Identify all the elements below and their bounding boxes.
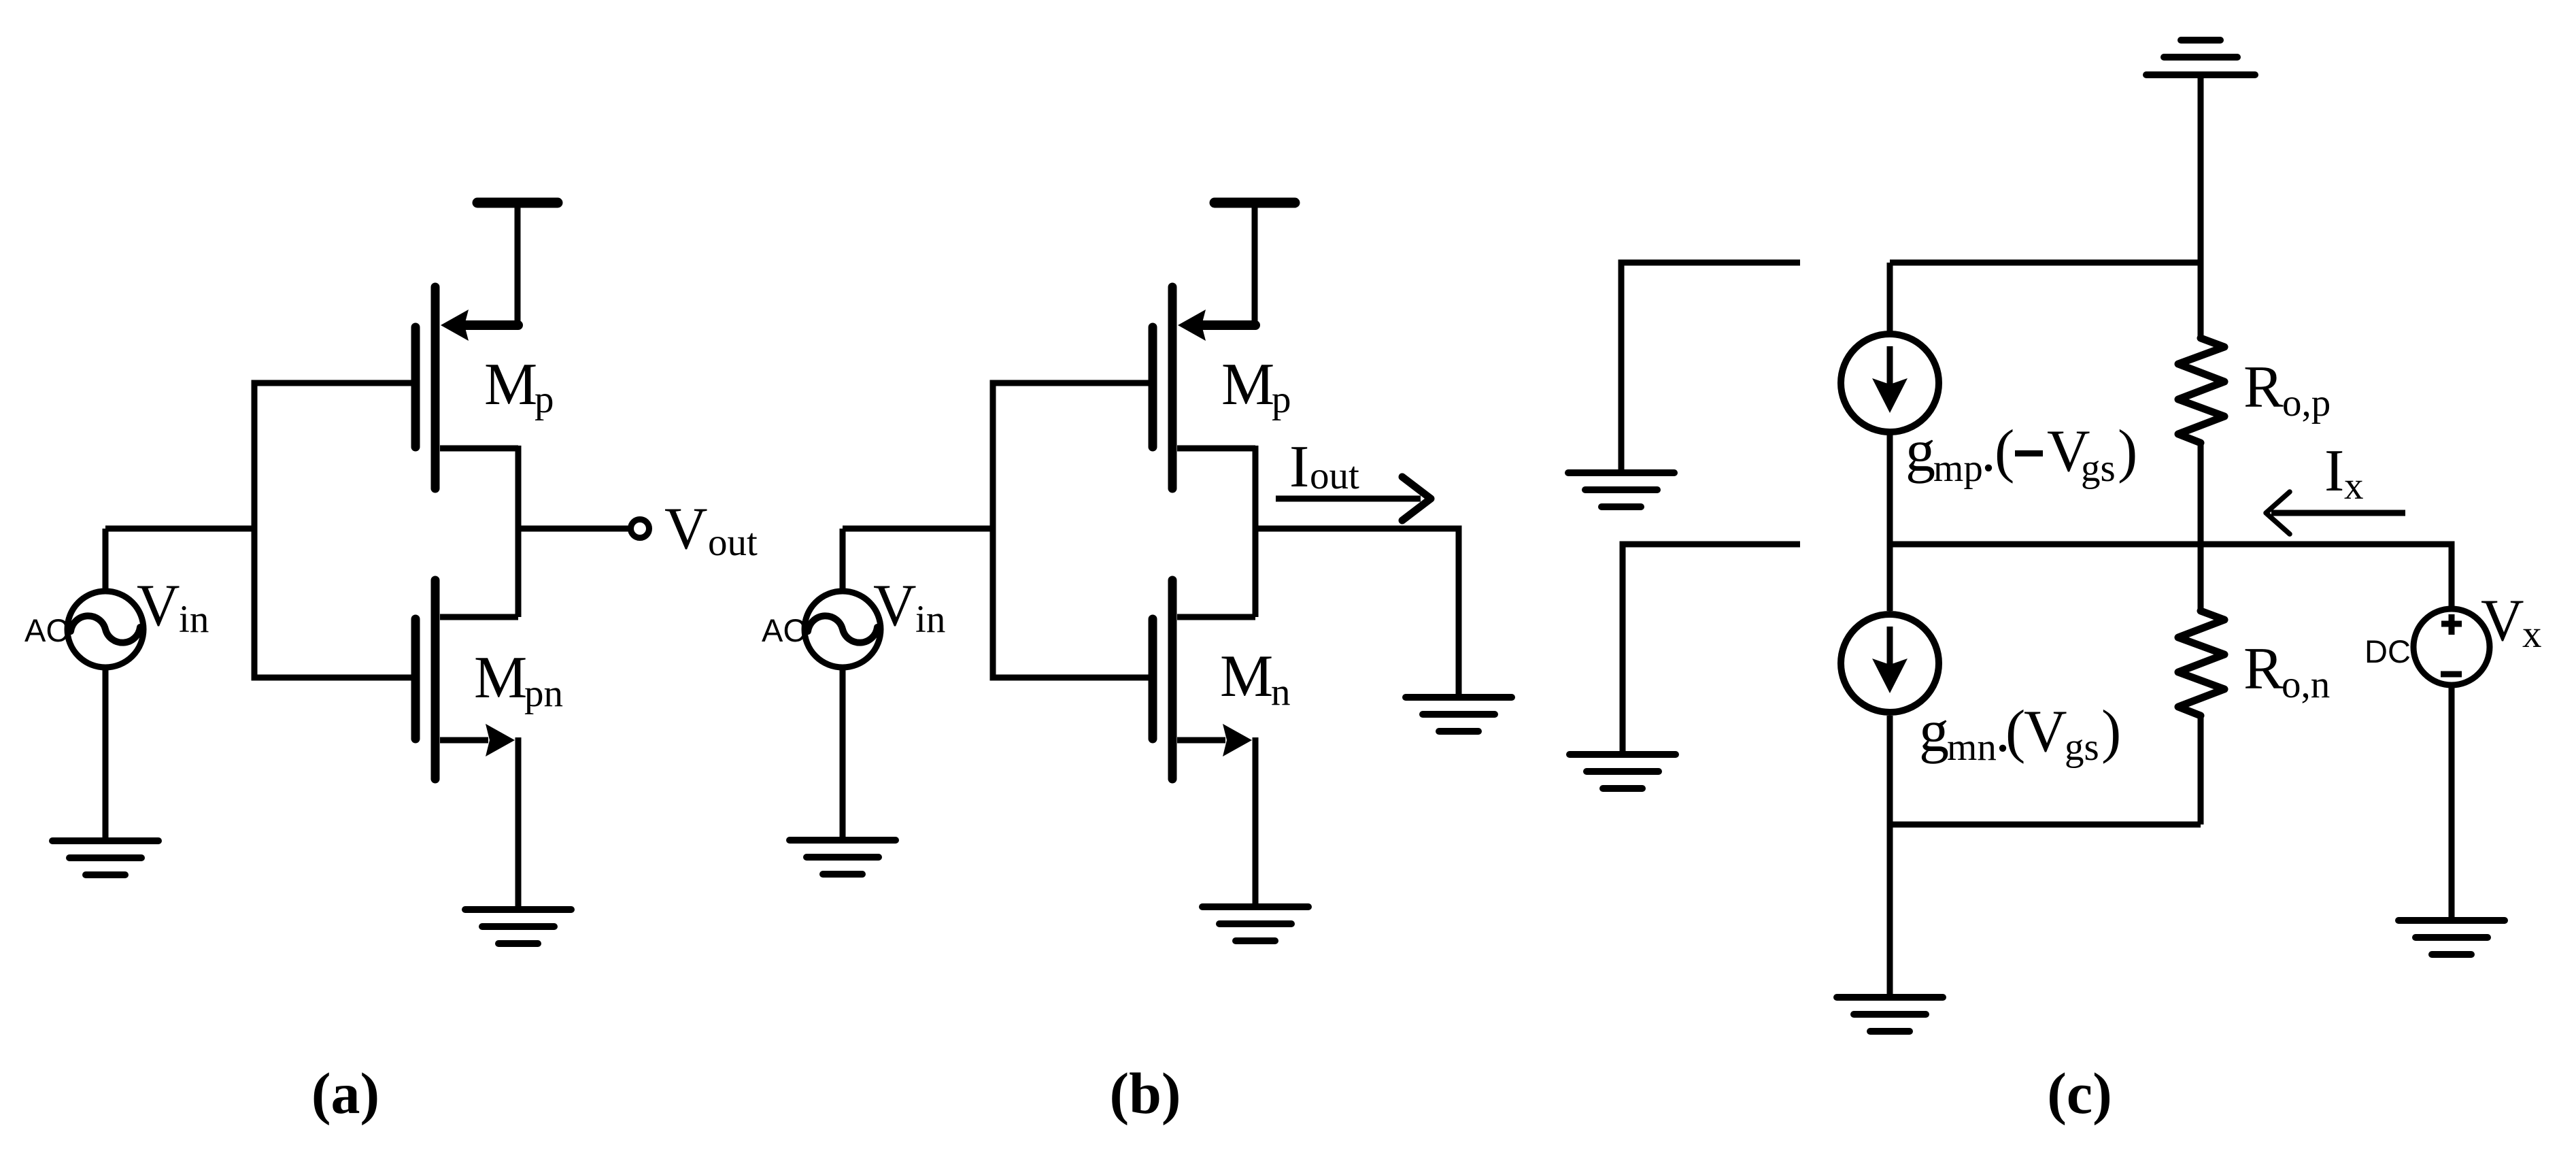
gate stub upper (AC-grounded gate) [1621, 263, 1800, 473]
ground (upper gate stub) [1568, 473, 1674, 507]
wire: AC source bottom lead [103, 669, 109, 841]
wire: drain to output node [515, 446, 522, 529]
PMOS source arrow (points into channel) [1178, 310, 1206, 341]
gate stub lower (AC-grounded gate) [1623, 544, 1800, 754]
M_n source arrow (points out of channel) [1223, 724, 1252, 756]
wire: PMOS source lead [465, 320, 518, 330]
arrow I_x [2266, 492, 2405, 534]
svg-text:gs: gs [2065, 726, 2099, 769]
svg-text:M: M [1221, 352, 1274, 418]
svg-text:V: V [2481, 588, 2524, 654]
svg-text:pn: pn [524, 672, 563, 715]
ground (left branch) [1837, 997, 1943, 1031]
wire: M_p drain lead [440, 446, 518, 452]
label M_n [1220, 644, 1291, 714]
wire: resistor branch middle [2198, 443, 2204, 611]
svg-text:I: I [1289, 434, 1309, 500]
AC source V_in circle [804, 591, 881, 667]
svg-text:): ) [2118, 418, 2137, 484]
ground (M_n source) [1202, 907, 1308, 941]
wire: M_pn source lead [440, 737, 488, 744]
transistor M_n (NMOS) channel bar [1168, 580, 1177, 779]
label M_pn [474, 645, 563, 715]
wire: input from AC source [843, 526, 993, 532]
svg-text:x: x [2522, 613, 2542, 656]
wire: top rail [1890, 260, 2201, 266]
transistor M_p gate bar [411, 327, 420, 447]
Vx minus sign [2441, 671, 2462, 678]
svg-text:V: V [137, 573, 180, 639]
output terminal node [631, 520, 649, 538]
wire: bottom rail [1890, 822, 2201, 828]
wire: input from AC source [105, 526, 254, 532]
svg-text:mn: mn [1947, 726, 1997, 769]
wire: output rail down to ground [1253, 529, 1459, 697]
M_pn source arrow (points out of channel) [486, 724, 515, 756]
wire: M_n drain lead [1177, 614, 1255, 620]
wire: AC source bottom lead [840, 669, 846, 840]
wire: middle rail to Vx [1890, 544, 2452, 607]
wire: AC source top lead [103, 529, 109, 589]
svg-text:p: p [1272, 378, 1291, 421]
wire: Vx bottom lead [2449, 686, 2455, 920]
svg-text:out: out [708, 521, 758, 564]
current source g_mp arrow [1872, 346, 1908, 413]
svg-text:(: ( [1995, 418, 2014, 484]
AC source sine symbol [71, 616, 140, 642]
label V_in [873, 573, 945, 641]
label V_out [664, 496, 758, 564]
label M_p [484, 352, 554, 421]
wire: resistor branch bottom [2198, 716, 2204, 825]
wire: source down to ground [1253, 737, 1259, 907]
resistor R_o,n [2178, 611, 2224, 716]
wire: M_n drain to output node [515, 529, 522, 617]
svg-text:(a): (a) [311, 1061, 379, 1126]
wire: M_p drain lead [1177, 446, 1255, 452]
svg-text:M: M [484, 352, 537, 418]
wire: top ground stem down to resistor branch [2198, 75, 2204, 338]
svg-text:in: in [179, 598, 209, 641]
wire: M_n source lead [1177, 737, 1225, 744]
svg-text:out: out [1310, 454, 1359, 497]
resistor R_o,p [2178, 338, 2224, 443]
transistor M_n gate bar [1149, 619, 1157, 739]
svg-text:p: p [535, 378, 554, 421]
svg-text:mp: mp [1933, 447, 1983, 490]
wire: PMOS source lead [1202, 320, 1255, 330]
ground (M_pn source) [465, 910, 571, 944]
wire: drain to output node [1253, 446, 1259, 529]
svg-text:V: V [2024, 699, 2067, 765]
wire: between current sources [1887, 435, 1893, 611]
ground (output) [1406, 697, 1512, 731]
svg-text:o,n: o,n [2282, 663, 2330, 706]
svg-text:I: I [2324, 438, 2344, 504]
wire: M_p gate lead + gate bus [254, 383, 412, 678]
svg-text:M: M [1220, 644, 1273, 710]
svg-text:x: x [2344, 465, 2364, 507]
svg-text:in: in [915, 598, 945, 641]
wire: left branch top [1887, 263, 1893, 333]
label g_mn.(V_gs) [1919, 699, 2121, 769]
label g_mp.(-V_gs) [1905, 418, 2137, 490]
svg-text:V: V [873, 573, 917, 639]
svg-text:M: M [474, 645, 527, 711]
ground (AC source) [52, 841, 158, 875]
svg-text:R: R [2243, 636, 2284, 702]
label M_p [1221, 352, 1291, 421]
transistor M_p (PMOS) channel bar [1168, 287, 1177, 488]
svg-text:AC: AC [24, 612, 69, 648]
wire: source down to ground [515, 737, 522, 910]
label R_o,n [2243, 636, 2330, 706]
Vx plus sign [2441, 614, 2462, 635]
label I_out [1289, 434, 1359, 500]
svg-text:g: g [1905, 418, 1935, 484]
wire: M_p gate lead + gate bus [993, 383, 1149, 678]
transistor M_p (PMOS) channel bar [431, 287, 440, 488]
label I_x [2324, 438, 2364, 507]
svg-text:.: . [1981, 418, 1996, 484]
svg-text:gs: gs [2081, 447, 2116, 490]
label R_o,p [2243, 354, 2331, 424]
transistor M_pn (NMOS) channel bar [431, 580, 440, 779]
wire: AC source top lead [840, 529, 846, 589]
ground (lower gate stub) [1570, 754, 1676, 788]
svg-text:AC: AC [762, 612, 806, 648]
svg-text:): ) [2101, 699, 2121, 765]
wire: M_n drain to output node [1253, 529, 1259, 617]
label V_in [137, 573, 209, 641]
DC source V_x circle [2413, 609, 2490, 685]
VDD supply bar [477, 203, 558, 325]
ground (top, inverted) [2146, 40, 2255, 75]
current source g_mp circle [1841, 334, 1939, 432]
label V_x [2481, 588, 2542, 656]
transistor M_pn gate bar [411, 619, 420, 739]
svg-text:(: ( [2005, 699, 2025, 765]
arrow I_out [1276, 477, 1431, 520]
svg-text:o,p: o,p [2282, 382, 2331, 424]
svg-text:n: n [1271, 671, 1291, 714]
PMOS source arrow (points into channel) [441, 310, 469, 341]
AC source sine symbol [808, 616, 877, 642]
wire: M_n drain lead [440, 614, 518, 620]
wire: output [515, 526, 630, 532]
ground (Vx) [2399, 920, 2505, 954]
current source g_mn arrow [1872, 627, 1908, 693]
wire: left branch bottom [1887, 716, 1893, 997]
svg-text:(b): (b) [1109, 1061, 1181, 1126]
current source g_mn circle [1841, 614, 1939, 712]
ground (AC source) [790, 840, 896, 874]
svg-text:R: R [2243, 354, 2284, 420]
svg-text:V: V [664, 496, 708, 562]
transistor M_p gate bar [1149, 327, 1157, 447]
svg-text:g: g [1919, 699, 1949, 765]
svg-text:(c): (c) [2047, 1061, 2112, 1126]
VDD supply bar [1215, 203, 1295, 325]
AC source V_in circle [67, 591, 143, 667]
svg-text:DC: DC [2365, 633, 2411, 669]
